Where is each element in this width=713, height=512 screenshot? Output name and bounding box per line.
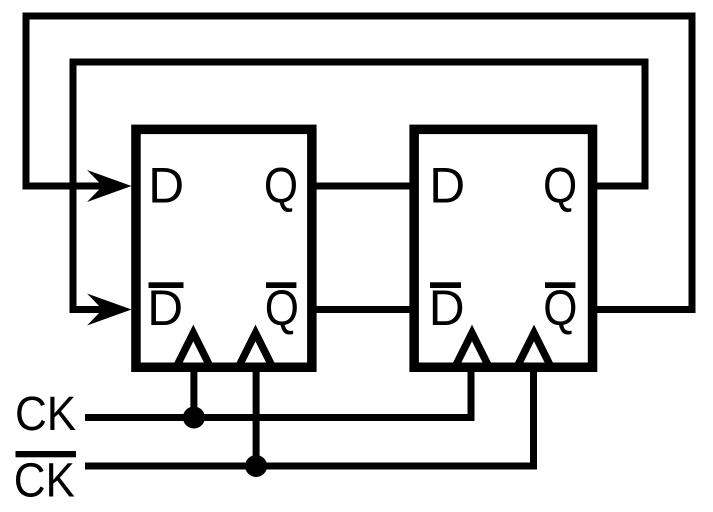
svg-text:Q: Q	[265, 280, 299, 336]
svg-text:Q: Q	[543, 158, 577, 214]
flip-flop U2 body	[414, 129, 592, 367]
arrowhead into Dbar input of U1	[87, 294, 132, 326]
pin label Qbar of U2	[543, 280, 577, 336]
net label CKbar	[14, 451, 76, 507]
wire Q1 to D2	[311, 183, 414, 190]
clock input triangle 2 of U2	[517, 333, 551, 367]
flip-flop U1 body	[136, 129, 312, 367]
svg-text:CK: CK	[14, 454, 75, 507]
clock input triangle 2 of U1	[239, 333, 273, 367]
svg-text:D: D	[429, 280, 465, 336]
arrowhead into D input of U1	[87, 170, 132, 202]
wire CKbar to clock 2 of U1	[253, 365, 260, 466]
clock input triangle 1 of U2	[455, 333, 489, 367]
junction dot CK / U1 clock 1	[183, 407, 205, 429]
wire feedback Q2bar to D1 (top outer loop)	[26, 16, 692, 310]
pin label Dbar of U2	[429, 280, 465, 336]
pin label Qbar of U1	[265, 280, 299, 336]
svg-text:D: D	[147, 280, 183, 336]
svg-text:Q: Q	[543, 280, 577, 336]
wire Q1bar to D2bar	[311, 306, 414, 313]
pin label Dbar of U1	[147, 280, 183, 336]
wire feedback Q2 to D1bar (inner loop)	[73, 62, 645, 310]
net CKbar wire	[85, 365, 534, 466]
wire CK to clock 1 of U1	[190, 365, 197, 418]
svg-text:Q: Q	[264, 158, 298, 214]
svg-text:CK: CK	[15, 388, 76, 441]
clock input triangle 1 of U1	[176, 333, 210, 367]
svg-text:D: D	[429, 158, 465, 214]
junction dot CKbar / U1 clock 2	[245, 455, 267, 477]
net CK wire	[85, 365, 471, 418]
svg-text:D: D	[148, 158, 184, 214]
